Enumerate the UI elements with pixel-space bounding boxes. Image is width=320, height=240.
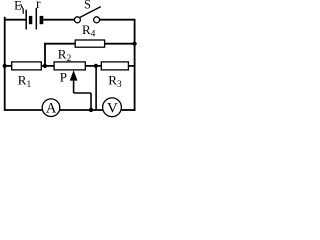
node dot slider-bottom wire junction [89,108,93,112]
wire top-left segment [5,19,26,21]
switch S left contact [74,17,80,23]
battery E,r cell1 long plate [25,10,27,30]
wire voltmeter branch vertical [95,66,97,110]
wire slider stem down [73,80,75,93]
wire R1 to R2 [41,65,54,67]
wire slider to bottom wire [90,93,92,110]
label E leader line [21,4,24,9]
resistor R1 [12,62,42,70]
wire R2 to R3 [85,65,101,67]
wire switch to top-right corner [100,19,135,21]
battery cell1 thick plate [29,16,32,24]
wire R4 row left [44,43,75,45]
wire R4 row right [105,43,135,45]
wire right vertical [134,19,136,111]
svg-text:P: P [60,69,67,84]
resistor R3 [101,62,128,70]
battery cell2 long plate [35,8,37,30]
slider P arrow [70,70,78,80]
switch S lever [80,7,101,18]
node dot R1-R2 / R4 branch junction [43,64,47,68]
svg-text:V: V [107,100,118,116]
rheostat R2 [54,62,85,70]
switch S right contact [94,17,100,23]
svg-text:r: r [36,0,41,11]
wire left vertical [4,17,6,111]
ammeter A [42,99,60,117]
wire ammeter to voltmeter [59,109,103,111]
svg-text:A: A [46,101,57,117]
wire battery to switch [43,19,74,21]
battery cell2 thick plate [40,16,44,24]
wire R4 left vertical from R4 row to middle row [44,43,46,66]
wire voltmeter to bottom-right corner [121,109,136,111]
wire middle row: left vertical to R1 [5,65,12,67]
voltmeter V [103,98,122,117]
node dot R4-right vertical junction [133,42,137,46]
node dot left vertical / middle row [3,64,7,68]
wire slider horizontal [74,92,91,94]
wire R3 to right vertical [128,65,134,67]
svg-text:E: E [14,0,22,12]
resistor R4 [75,40,104,47]
wire bottom left [5,109,43,111]
svg-text:S: S [84,0,91,11]
node dot R2-R3 / voltmeter branch junction [94,64,98,68]
